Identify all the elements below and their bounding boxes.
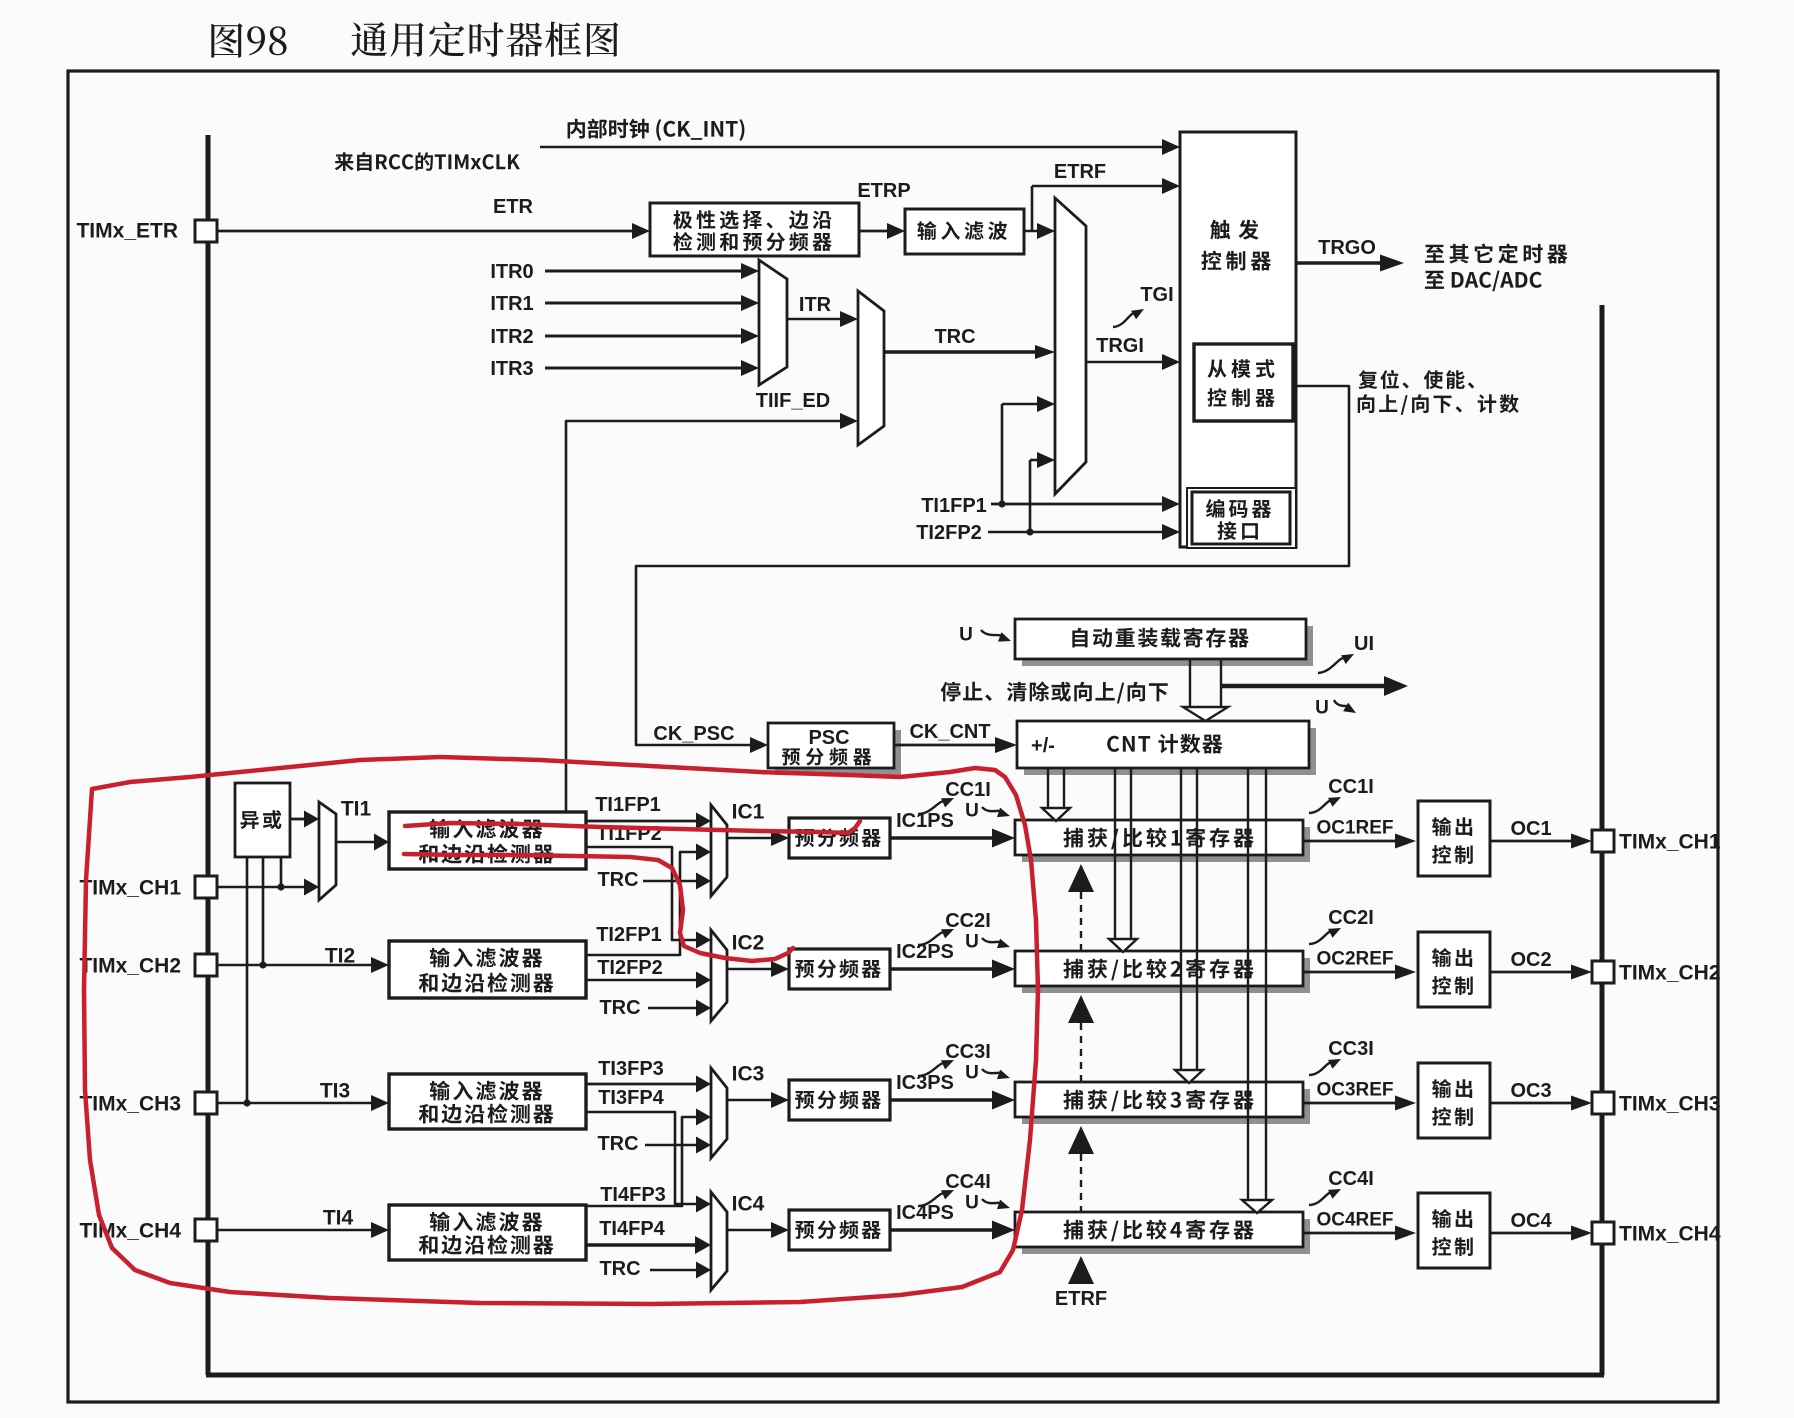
svg-text:TIMx_ETR: TIMx_ETR (76, 219, 178, 242)
svg-text:U: U (965, 1193, 979, 1214)
svg-text:U: U (965, 932, 979, 953)
svg-text:TI3: TI3 (320, 1079, 350, 1102)
svg-text:TI2FP2: TI2FP2 (916, 522, 982, 544)
svg-text:U: U (965, 801, 979, 822)
svg-text:TIMx_CH3: TIMx_CH3 (1619, 1092, 1721, 1115)
svg-text:TGI: TGI (1140, 284, 1173, 306)
svg-text:TIMx_CH1: TIMx_CH1 (79, 876, 181, 899)
svg-text:TRGO: TRGO (1318, 237, 1376, 259)
svg-text:CC4I: CC4I (1328, 1168, 1374, 1190)
svg-text:TRC: TRC (597, 1133, 638, 1155)
svg-text:ETRP: ETRP (857, 180, 910, 202)
svg-text:CC1I: CC1I (1328, 776, 1374, 798)
svg-text:TIMx_CH1: TIMx_CH1 (1619, 830, 1721, 853)
svg-text:TI1: TI1 (341, 797, 372, 820)
svg-text:IC1: IC1 (732, 800, 765, 823)
svg-text:ITR0: ITR0 (490, 261, 533, 283)
svg-text:CC2I: CC2I (945, 910, 991, 932)
svg-text:U: U (1315, 698, 1329, 719)
svg-text:U: U (965, 1063, 979, 1084)
svg-text:TIMx_CH2: TIMx_CH2 (79, 954, 181, 977)
svg-text:ETRF: ETRF (1054, 161, 1106, 183)
svg-text:ITR: ITR (799, 294, 832, 316)
svg-text:OC1REF: OC1REF (1316, 818, 1393, 839)
svg-text:TRC: TRC (934, 326, 975, 348)
svg-text:OC2: OC2 (1510, 949, 1551, 971)
svg-text:IC4: IC4 (732, 1192, 765, 1215)
svg-text:ITR3: ITR3 (490, 358, 533, 380)
svg-text:U: U (959, 625, 973, 646)
svg-text:OC4: OC4 (1510, 1210, 1552, 1232)
svg-text:TIMx_CH3: TIMx_CH3 (79, 1092, 181, 1115)
svg-text:TIMx_CH4: TIMx_CH4 (79, 1219, 181, 1242)
svg-text:ITR2: ITR2 (490, 326, 533, 348)
svg-text:CK_PSC: CK_PSC (653, 723, 734, 745)
svg-text:UI: UI (1354, 633, 1374, 655)
svg-text:CC3I: CC3I (945, 1041, 991, 1063)
svg-text:OC2REF: OC2REF (1316, 949, 1393, 970)
svg-text:ITR1: ITR1 (490, 293, 533, 315)
svg-text:CK_CNT: CK_CNT (909, 721, 990, 743)
svg-text:TI3FP4: TI3FP4 (598, 1087, 664, 1109)
svg-text:OC4REF: OC4REF (1316, 1210, 1393, 1231)
svg-text:TI3FP3: TI3FP3 (598, 1058, 664, 1080)
svg-text:ETRF: ETRF (1055, 1288, 1107, 1310)
svg-text:OC3: OC3 (1510, 1080, 1551, 1102)
svg-text:TIMx_CH2: TIMx_CH2 (1619, 961, 1721, 984)
svg-text:CC1I: CC1I (945, 779, 991, 801)
svg-text:ETR: ETR (493, 196, 534, 218)
svg-text:CC2I: CC2I (1328, 907, 1374, 929)
svg-text:OC1: OC1 (1510, 818, 1551, 840)
svg-text:TRC: TRC (599, 1258, 640, 1280)
svg-text:TIMx_CH4: TIMx_CH4 (1619, 1222, 1721, 1245)
svg-text:OC3REF: OC3REF (1316, 1080, 1393, 1101)
svg-text:TRGI: TRGI (1096, 335, 1144, 357)
svg-text:TI2FP2: TI2FP2 (597, 957, 663, 979)
svg-text:TI1FP1: TI1FP1 (595, 794, 661, 816)
svg-text:TI4: TI4 (323, 1206, 354, 1229)
svg-text:CC4I: CC4I (945, 1171, 991, 1193)
svg-text:TI1FP1: TI1FP1 (921, 495, 987, 517)
svg-text:TRC: TRC (597, 869, 638, 891)
svg-text:TIIF_ED: TIIF_ED (756, 390, 830, 412)
svg-text:CC3I: CC3I (1328, 1038, 1374, 1060)
svg-text:TI2: TI2 (325, 944, 355, 967)
svg-text:TI4FP3: TI4FP3 (600, 1184, 666, 1206)
svg-text:IC2: IC2 (732, 931, 765, 954)
svg-text:TI2FP1: TI2FP1 (596, 924, 662, 946)
svg-text:TI4FP4: TI4FP4 (599, 1218, 665, 1240)
svg-text:IC3: IC3 (732, 1062, 765, 1085)
svg-text:PSC: PSC (808, 727, 849, 749)
svg-text:+/-: +/- (1031, 735, 1055, 757)
svg-text:TRC: TRC (599, 997, 640, 1019)
